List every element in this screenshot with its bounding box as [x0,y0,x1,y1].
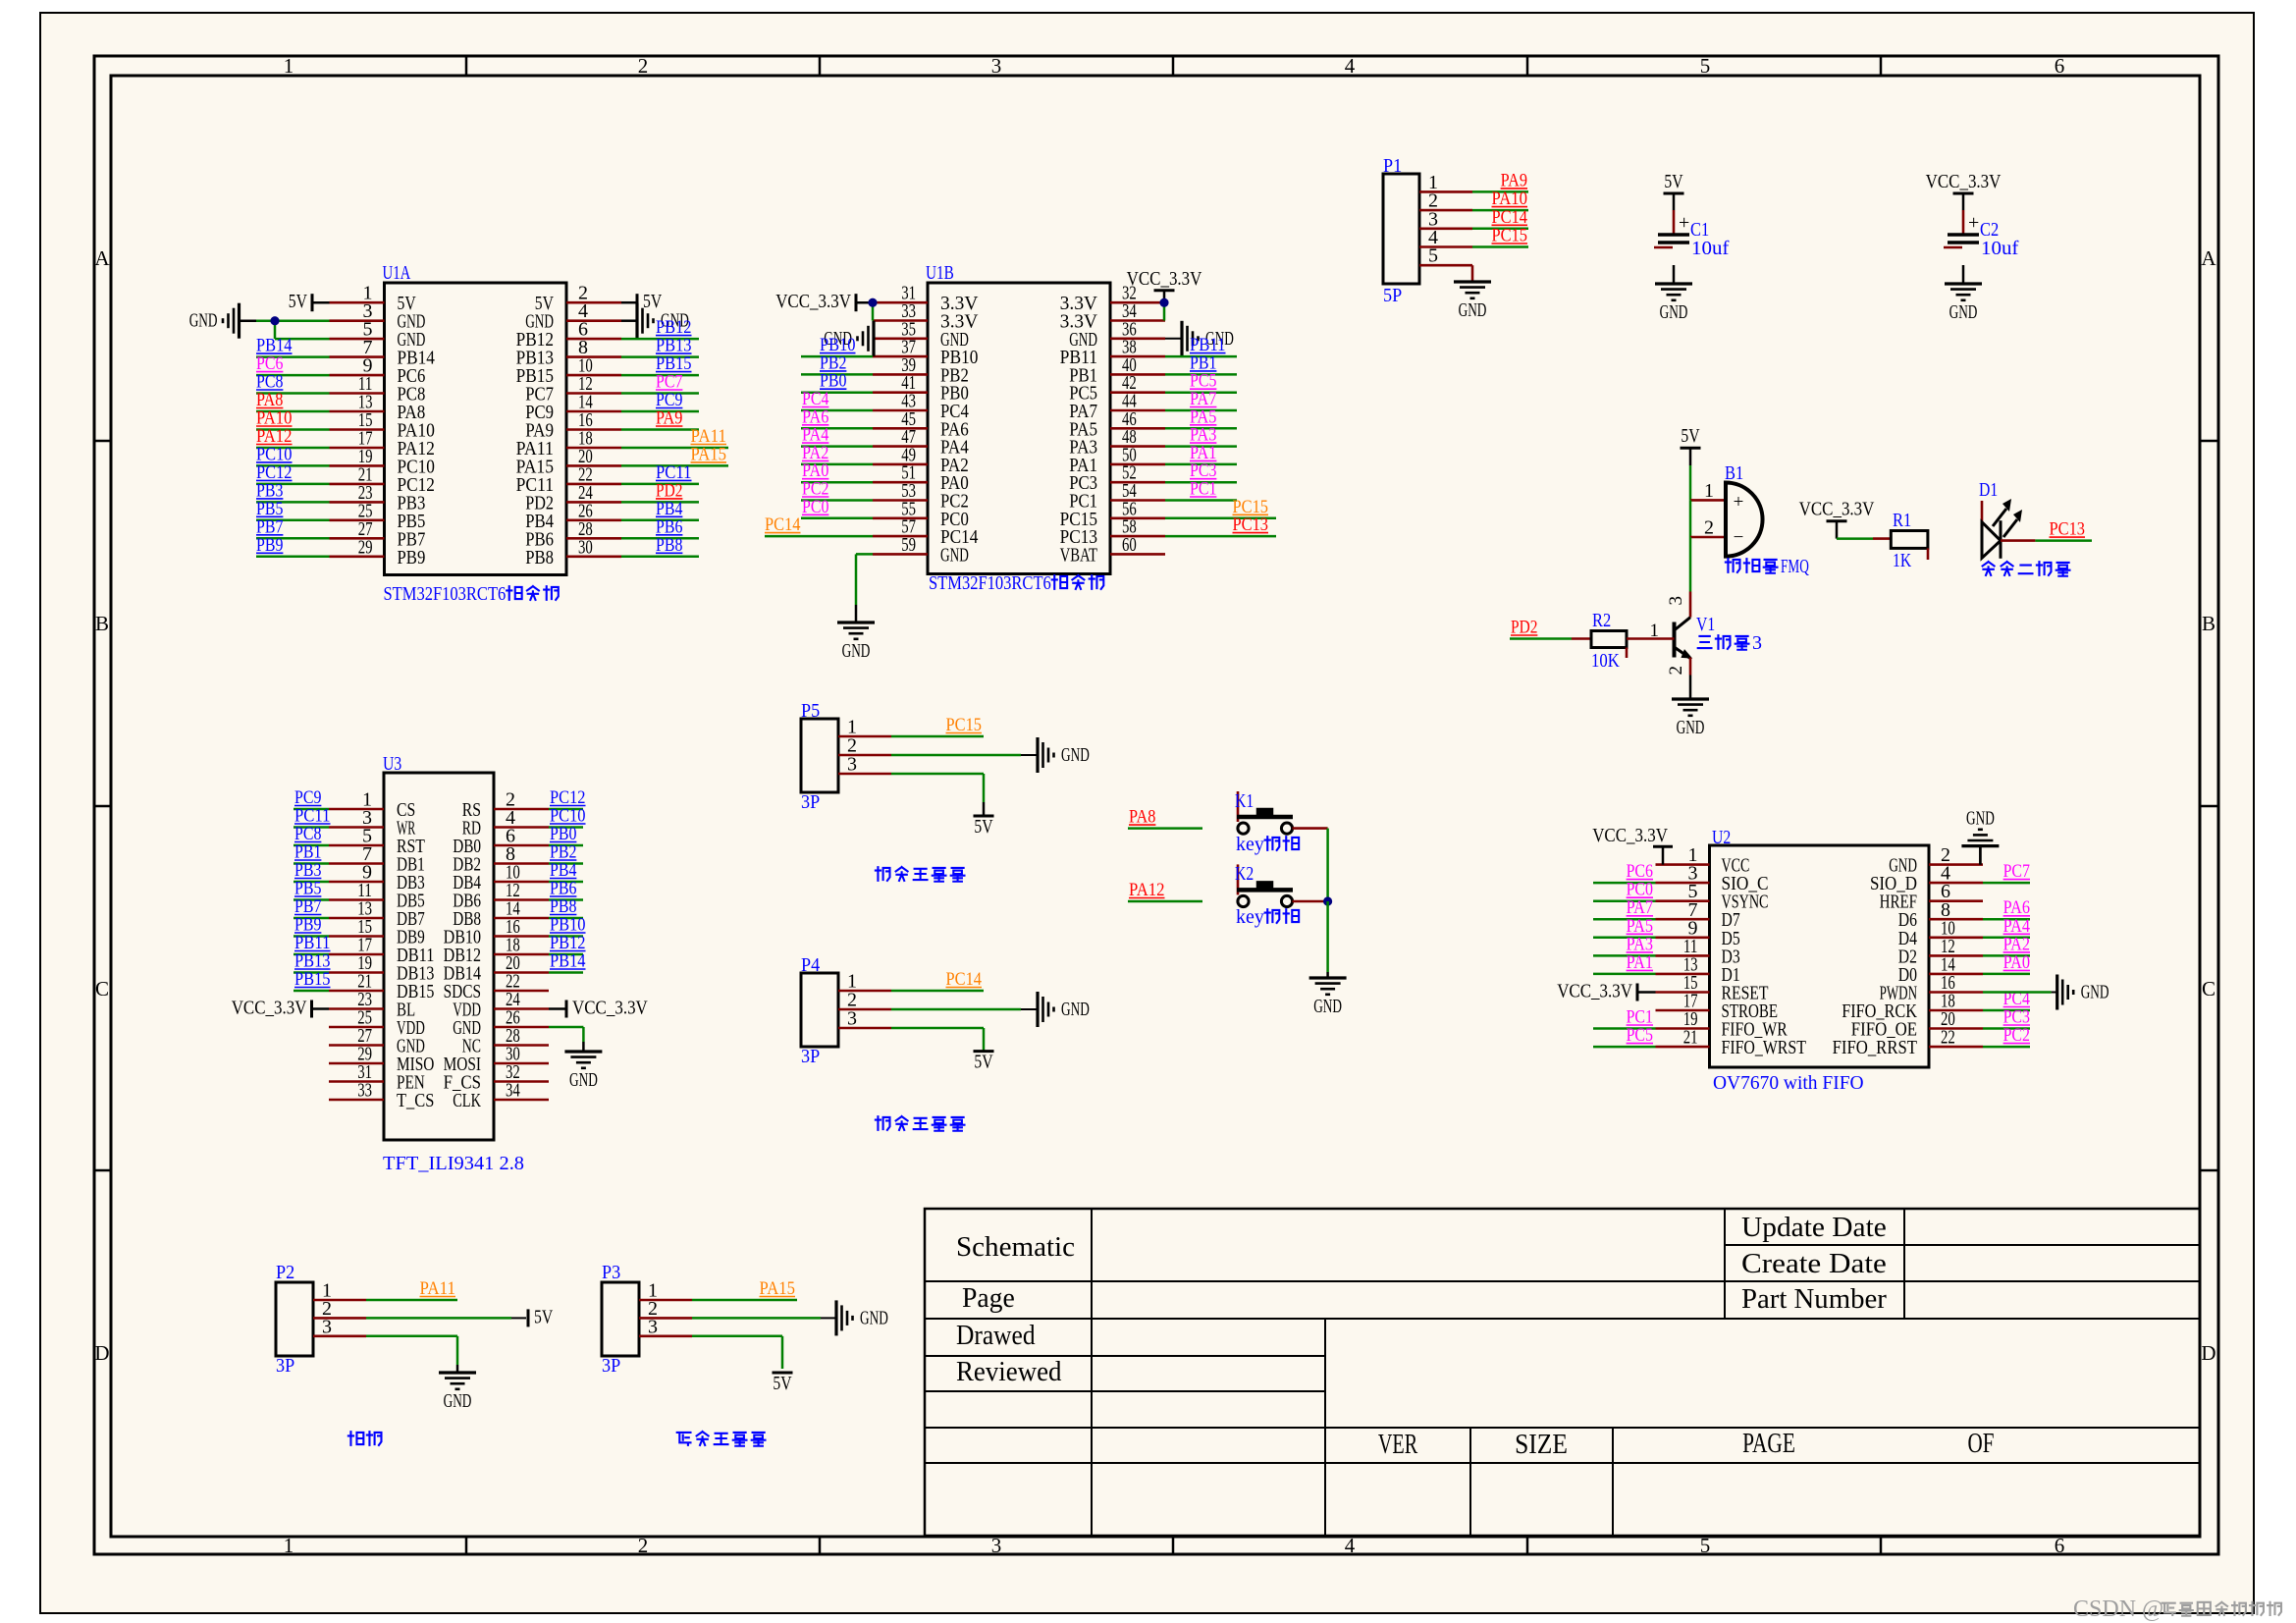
net label PC5 [1190,371,1216,392]
wire PC12 U3 pin 2 [549,808,583,811]
ground GND below C2 [1945,265,1982,323]
net label PB7 [294,896,321,917]
net label PA10 [256,408,293,429]
svg-text:FIFO_RRST: FIFO_RRST [1833,1037,1917,1058]
wire PB12 U1A pin 6 [621,338,699,341]
net label PA2 [2003,934,2030,954]
label TFT_ILI9341 2.8 [383,1153,524,1174]
svg-text:Create Date: Create Date [1741,1249,1887,1279]
svg-text:P5: P5 [801,700,820,722]
svg-text:VCC_3.3V: VCC_3.3V [775,291,851,312]
wire PA15 P3 pin1 [692,1299,797,1302]
net label PB4 [656,499,683,519]
svg-text:key: key [1236,906,1264,928]
net label PB2 [820,352,846,373]
buzzer B1 [1726,483,1763,557]
wire PC5 U1B pin 42 [1165,391,1237,394]
svg-text:CSDN @: CSDN @ [2073,1596,2163,1622]
wire PA2 U1B pin 49 [801,463,873,466]
svg-text:VCC_3.3V: VCC_3.3V [1592,825,1668,846]
connector P5 3P header [801,717,891,793]
svg-text:GND: GND [569,1069,598,1091]
designator P2 [276,1262,294,1283]
label 3P (P3) [602,1355,620,1377]
wire R2 to V1 base [1645,637,1675,640]
wire VCC to R1 [1837,537,1891,540]
wire PC1 U1B pin 54 [1165,499,1237,502]
svg-text:STM32F103RCT6: STM32F103RCT6 [929,572,1051,594]
svg-text:U3: U3 [383,753,401,775]
net label PC12 [256,462,293,483]
net label PB15 [656,353,692,374]
wire PC6 U2 pin 3 [1593,882,1656,885]
wire B1 pin2 stub [1690,517,1726,539]
wire P2 pin3 GND [366,1336,457,1365]
wire P3 pin2 GND [692,1317,836,1320]
net label PA11 [420,1278,456,1299]
wire PB15 U1A pin 10 [621,374,699,377]
power VCC_3.3V at U3 pin23 [232,998,329,1019]
wire PC4 U2 pin 18 [1983,1009,2030,1012]
svg-text:59: 59 [901,534,916,556]
ground GND above U2 pin2 [1961,808,1999,865]
svg-text:5V: 5V [773,1373,792,1394]
ground GND right of U2 pin16 [2057,975,2109,1010]
svg-text:GND: GND [189,310,218,332]
power 5V below P4 [974,1052,994,1073]
svg-text:VCC_3.3V: VCC_3.3V [232,998,307,1019]
wire PC7 U2 pin 4 [1983,882,2030,885]
svg-text:5: 5 [1700,54,1711,78]
wire PC9 U3 pin 1 [294,808,329,811]
svg-text:TFT_ILI9341 2.8: TFT_ILI9341 2.8 [383,1153,524,1174]
svg-text:3: 3 [1752,632,1762,654]
svg-text:10uf: 10uf [1691,238,1730,259]
svg-text:Reviewed: Reviewed [956,1357,1062,1387]
net label PC14 [1492,207,1528,228]
net label PC13 [1233,514,1269,535]
wire PA9 P1 pin 1 [1472,190,1528,193]
power 5V below P5 [974,802,994,838]
svg-text:R2: R2 [1592,610,1611,631]
power VCC_3.3V at U1B pin32 [1127,268,1202,321]
ground GND right of P4 [1038,992,1090,1027]
svg-text:D: D [2201,1341,2216,1365]
net label PB11 [294,933,331,953]
net label PC11 [294,806,331,827]
net label PA1 [1627,952,1653,973]
net label PC7 [656,372,682,393]
net label PB1 [1190,352,1216,373]
power VCC_3.3V at U3 pin24 [549,998,648,1019]
label infrared sensor (P4) [876,1116,965,1131]
wire PC11 U1A pin 22 [621,483,699,486]
ground GND left of U1B pin35 [824,321,874,356]
svg-text:3: 3 [991,1534,1002,1557]
wire PC14 P4 pin1 [891,990,984,993]
designator K1 [1235,790,1254,812]
wire PB14 U1A pin 7 [256,355,330,358]
net label PB0 [820,371,846,392]
svg-text:29: 29 [358,536,373,558]
svg-text:GND: GND [1949,301,1978,323]
net label PA11 [691,426,727,447]
ground GND below C1 [1655,265,1692,323]
svg-text:5: 5 [1428,245,1438,267]
svg-text:Page: Page [962,1283,1015,1314]
svg-text:STM32F103RCT6: STM32F103RCT6 [384,583,507,605]
svg-text:3: 3 [322,1316,332,1337]
svg-text:21: 21 [1683,1027,1698,1049]
svg-text:P2: P2 [276,1262,294,1283]
svg-text:6: 6 [2055,1534,2065,1557]
svg-text:Part Number: Part Number [1741,1284,1887,1315]
capacitor C2 10uf [1926,171,2019,259]
ground GND below P2 [439,1365,476,1412]
wire GND U1B pin59 [856,554,873,605]
wire PA11 P2 pin1 [366,1299,457,1302]
wire PC8 U1A pin 11 [256,392,330,395]
wire PB0 U1B pin 41 [801,391,873,394]
svg-text:U1A: U1A [383,262,411,284]
svg-text:VCC_3.3V: VCC_3.3V [572,998,648,1019]
key switch K2 [1237,864,1293,906]
wire PC15 U1B pin 56 [1165,517,1276,520]
wire PC0 U2 pin 5 [1593,899,1656,902]
svg-text:GND: GND [1061,744,1090,766]
svg-text:1K: 1K [1893,550,1912,571]
svg-text:OF: OF [1968,1429,1995,1459]
net label PB3 [256,480,283,501]
wire PB8 U1A pin 30 [621,556,699,559]
wire PA1 U2 pin 13 [1593,973,1656,976]
svg-text:3: 3 [847,1008,857,1030]
label transistor 3 [1698,632,1762,654]
svg-text:3: 3 [1666,596,1686,606]
svg-text:5: 5 [1700,1534,1711,1557]
resistor R1 1K [1891,510,1928,571]
net label PA2 [802,443,828,463]
net label PA9 [656,408,682,429]
junction K2 GND [1323,896,1332,905]
wire PA9 U1A pin 16 [621,428,699,431]
wire PC8 U3 pin 5 [294,844,329,847]
wire PC2 U2 pin 22 [1983,1046,2030,1049]
net label PC4 [802,389,829,409]
svg-text:60: 60 [1122,534,1137,556]
net label PC8 [256,372,283,393]
watermark CSDN [2073,1596,2281,1622]
wire PA0 U2 pin 14 [1983,973,2030,976]
wire PA10 P1 pin 2 [1472,209,1528,212]
wire PB13 U3 pin 19 [294,971,329,974]
designator U2 [1712,827,1731,848]
designator U3 [383,753,401,775]
wire GND U3 pin26 [549,1027,583,1042]
label STM32F103RCT6 core board (U1B) [929,572,1103,594]
net label PC0 [802,497,828,517]
label key button K2 [1236,906,1299,928]
ground GND right of P5 [1038,737,1090,773]
svg-text:P3: P3 [602,1262,620,1283]
svg-text:GND: GND [1660,301,1688,323]
svg-text:1: 1 [284,54,294,78]
svg-text:GND: GND [444,1390,472,1412]
label pressure sensor [677,1432,766,1446]
net label PA5 [1190,406,1216,427]
wire PB12 U3 pin 18 [549,953,583,956]
net label PA3 [1190,425,1216,446]
svg-text:B: B [2202,612,2216,635]
net label PC2 [802,479,828,500]
net label PC11 [656,462,692,483]
wire GND net U1A pins 3-5 [240,321,330,339]
net label PC15 [1233,497,1269,517]
svg-text:key: key [1236,834,1264,855]
svg-text:+: + [1679,212,1689,234]
svg-text:PB8: PB8 [525,547,554,568]
svg-text:V1: V1 [1696,614,1715,635]
net label PA4 [802,425,829,446]
svg-text:T_CS: T_CS [397,1090,434,1111]
wire PA6 U2 pin 8 [1983,918,2030,921]
wire PB7 U3 pin 13 [294,917,329,920]
svg-text:−: − [1734,527,1744,548]
wire B1 pin2 to V1 collector [1689,537,1692,592]
label LED (fa guang er ji guan) [1983,562,2070,576]
net label PC15 [1492,226,1528,246]
chip U3 TFT_ILI9341 display connector [329,773,549,1140]
designator P3 [602,1262,620,1283]
wire PA1 U1B pin 50 [1165,463,1237,466]
svg-text:+: + [1734,492,1744,513]
svg-text:34: 34 [506,1080,520,1102]
ground GND below P1 [1454,282,1491,321]
label servo (duo ji) [348,1432,382,1445]
connector P3 3P header [602,1280,692,1357]
net label PD2 [656,480,682,501]
label 3P (P4) [801,1046,820,1067]
LED D1 [1982,499,2022,559]
net label PA0 [2003,952,2030,973]
svg-text:Schematic: Schematic [956,1232,1075,1263]
wire PD2 to R2 [1510,637,1591,640]
wire PA3 U2 pin 11 [1593,954,1656,957]
border row letters [94,246,2216,1365]
svg-text:6: 6 [2055,54,2065,78]
svg-text:GND: GND [940,544,969,566]
svg-text:A: A [2201,246,2216,270]
net label PC7 [2003,861,2030,882]
wire PA4 U1B pin 47 [801,445,873,448]
wire PB4 U3 pin 10 [549,881,583,884]
svg-text:P1: P1 [1383,155,1402,177]
wire PC5 U2 pin 21 [1593,1046,1656,1049]
net label PA7 [1627,897,1653,918]
ground GND below U1B [837,605,875,662]
label STM32F103RCT6 core board (U1A) [384,583,559,605]
ground GND left of U1A [189,303,240,339]
net label PB9 [256,535,283,556]
net label PC3 [1190,460,1216,481]
svg-text:SIZE: SIZE [1515,1430,1568,1460]
net label PC15 [946,715,983,735]
net label PC10 [550,806,586,827]
wire PB3 U1A pin 23 [256,501,330,504]
net label PA6 [802,406,828,427]
svg-text:GND: GND [1966,808,1995,830]
power VCC_3.3V left of R1 [1799,499,1875,539]
net label PC9 [294,787,321,808]
wire PC15 P5 pin1 [891,735,984,738]
net label PA0 [802,460,828,481]
net label PA8 [256,390,283,410]
svg-text:A: A [94,246,110,270]
svg-text:VCC_3.3V: VCC_3.3V [1799,499,1875,520]
wire PC14 U1B pin 57 [765,535,873,538]
wire PA0 U1B pin 51 [801,481,873,484]
svg-text:VCC_3.3V: VCC_3.3V [1926,171,2002,192]
svg-text:2: 2 [1704,517,1714,539]
label OV7670 with FIFO [1713,1072,1864,1094]
wire PD2 U1A pin 24 [621,501,699,504]
wire PB2 U3 pin 8 [549,862,583,865]
net label PB2 [550,842,576,863]
svg-text:3: 3 [847,754,857,776]
net label PB10 [820,335,856,355]
svg-text:VCC_3.3V: VCC_3.3V [1127,268,1202,290]
svg-text:33: 33 [357,1080,372,1102]
wire PC7 U1A pin 12 [621,392,699,395]
net label PD2 [1511,618,1537,638]
chip U1A STM32F103RCT6 core board header (left half) [330,283,622,575]
net label PA6 [2003,897,2030,918]
label 5P [1383,285,1402,306]
wire PA4 U2 pin 10 [1983,937,2030,940]
junction at U1A GND branch [270,316,279,325]
net label PA7 [1190,389,1216,409]
net label PB4 [550,860,577,881]
wire PB13 U1A pin 8 [621,355,699,358]
net label PA9 [1501,170,1527,190]
ground GND below keys [1309,972,1347,1017]
svg-text:5V: 5V [534,1306,554,1327]
wire PC11 U3 pin 3 [294,826,329,829]
connector P4 3P header [801,971,891,1048]
capacitor C1 10uf [1654,171,1730,259]
junction at U1B pin31 [868,298,877,307]
net label PC4 [2003,989,2031,1009]
net label PB1 [294,842,321,863]
svg-text:5V: 5V [1681,425,1700,447]
wire B1 pin1 stub [1690,480,1726,502]
svg-text:VCC_3.3V: VCC_3.3V [1557,981,1632,1002]
net label PB11 [1190,335,1226,355]
wire GND U2 pin16 [1983,991,2057,994]
wire PA2 U2 pin 12 [1983,954,2030,957]
ground GND right of P3 [836,1300,888,1335]
wire PC0 U1B pin 55 [801,517,873,520]
net label PA1 [1190,443,1216,463]
svg-text:5V: 5V [643,291,663,312]
net label PB13 [656,336,692,356]
svg-text:U1B: U1B [926,262,954,284]
wire PC4 U1B pin 43 [801,409,873,412]
svg-text:5V: 5V [974,1052,993,1073]
net label PB5 [294,879,321,899]
wire PB4 U1A pin 26 [621,519,699,522]
label buzzer FMQ [1726,556,1809,577]
net label PC14 [946,969,983,990]
wire PA5 U2 pin 9 [1593,937,1656,940]
wire PB11 U1B pin 38 [1165,355,1237,358]
net label PA5 [1627,916,1653,937]
wire PB1 U3 pin 7 [294,862,329,865]
svg-text:PAGE: PAGE [1742,1429,1795,1459]
svg-text:30: 30 [578,536,593,558]
wire PA3 U1B pin 48 [1165,445,1237,448]
net label PB8 [550,896,576,917]
wire PC1 U2 pin 19 [1593,1027,1656,1030]
net label PA15 [760,1278,796,1299]
designator D1 [1979,479,1998,501]
svg-text:VBAT: VBAT [1060,544,1097,566]
svg-text:3P: 3P [602,1355,620,1377]
wire PB5 U3 pin 11 [294,898,329,901]
wire PA12 [1128,900,1202,903]
net label PB12 [656,317,692,338]
title block grid [925,1209,2200,1536]
designator K2 [1235,863,1254,885]
wire P4 pin3 5V [891,1028,984,1051]
wire PB1 U1B pin 40 [1165,373,1237,376]
svg-text:3: 3 [991,54,1002,78]
svg-text:GND: GND [2081,982,2109,1003]
ground GND right of U1A [621,303,689,339]
label 3P (P2) [276,1355,294,1377]
power VCC_3.3V at U1B pin31 [775,291,873,320]
wire P2 pin2 5V [366,1317,526,1320]
wire PC13 U1B pin 58 [1165,535,1276,538]
wire PA11 U1A pin 18 [621,447,728,450]
svg-text:GND: GND [1677,717,1705,738]
net label PA15 [691,444,727,464]
border column numbers [284,54,2065,1557]
wire PB0 U3 pin 6 [549,844,583,847]
svg-text:1: 1 [1704,480,1714,502]
svg-text:FIFO_WRST: FIFO_WRST [1722,1037,1806,1058]
wire P1 pin5 to ground [1471,265,1474,282]
svg-text:PB9: PB9 [398,547,426,568]
svg-text:K2: K2 [1235,863,1254,885]
svg-text:R1: R1 [1893,510,1911,531]
wire K2 to GND net [1293,900,1328,903]
wire 5V to B1 pin1 [1689,448,1692,500]
net label PC5 [1627,1025,1653,1046]
svg-text:Drawed: Drawed [956,1321,1036,1351]
svg-text:D1: D1 [1979,479,1998,501]
net label PB0 [550,824,576,844]
wire PB11 U3 pin 17 [294,953,329,956]
designator U1A [383,262,411,284]
ground GND below V1 [1672,693,1709,738]
power 5V at U1A pin2 [621,291,663,312]
net label PA3 [1627,934,1653,954]
svg-text:Update Date: Update Date [1741,1213,1887,1243]
net label PC10 [256,444,293,464]
wire PA5 U1B pin 46 [1165,427,1237,430]
net label PB7 [256,516,283,537]
